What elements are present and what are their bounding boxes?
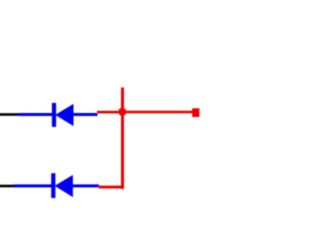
diode D1 cathode bar xyxy=(52,103,56,127)
wire B to diode D2 (blue) xyxy=(14,184,52,187)
diode D2 cathode bar xyxy=(51,173,55,198)
wire D2 to bus (blue) xyxy=(73,184,99,187)
wire output (red, node to terminal) xyxy=(121,111,193,114)
wire node to bus (red, dim segment) xyxy=(97,111,123,114)
diode D1 triangle (pointing left) xyxy=(55,104,73,126)
terminal pad (red square, output) xyxy=(192,108,199,117)
junction node dot xyxy=(118,108,126,116)
wire red vertical bus xyxy=(121,88,124,190)
diode D2 triangle (pointing left) xyxy=(55,175,73,197)
wire D1 to node (blue) xyxy=(73,113,97,116)
wire input B (black stub, bottom left) xyxy=(0,185,16,188)
wire input A (black stub, top left) xyxy=(0,113,19,116)
wire A to diode D1 (blue) xyxy=(19,113,54,116)
wire bottom corner (red, to bus) xyxy=(99,186,125,189)
